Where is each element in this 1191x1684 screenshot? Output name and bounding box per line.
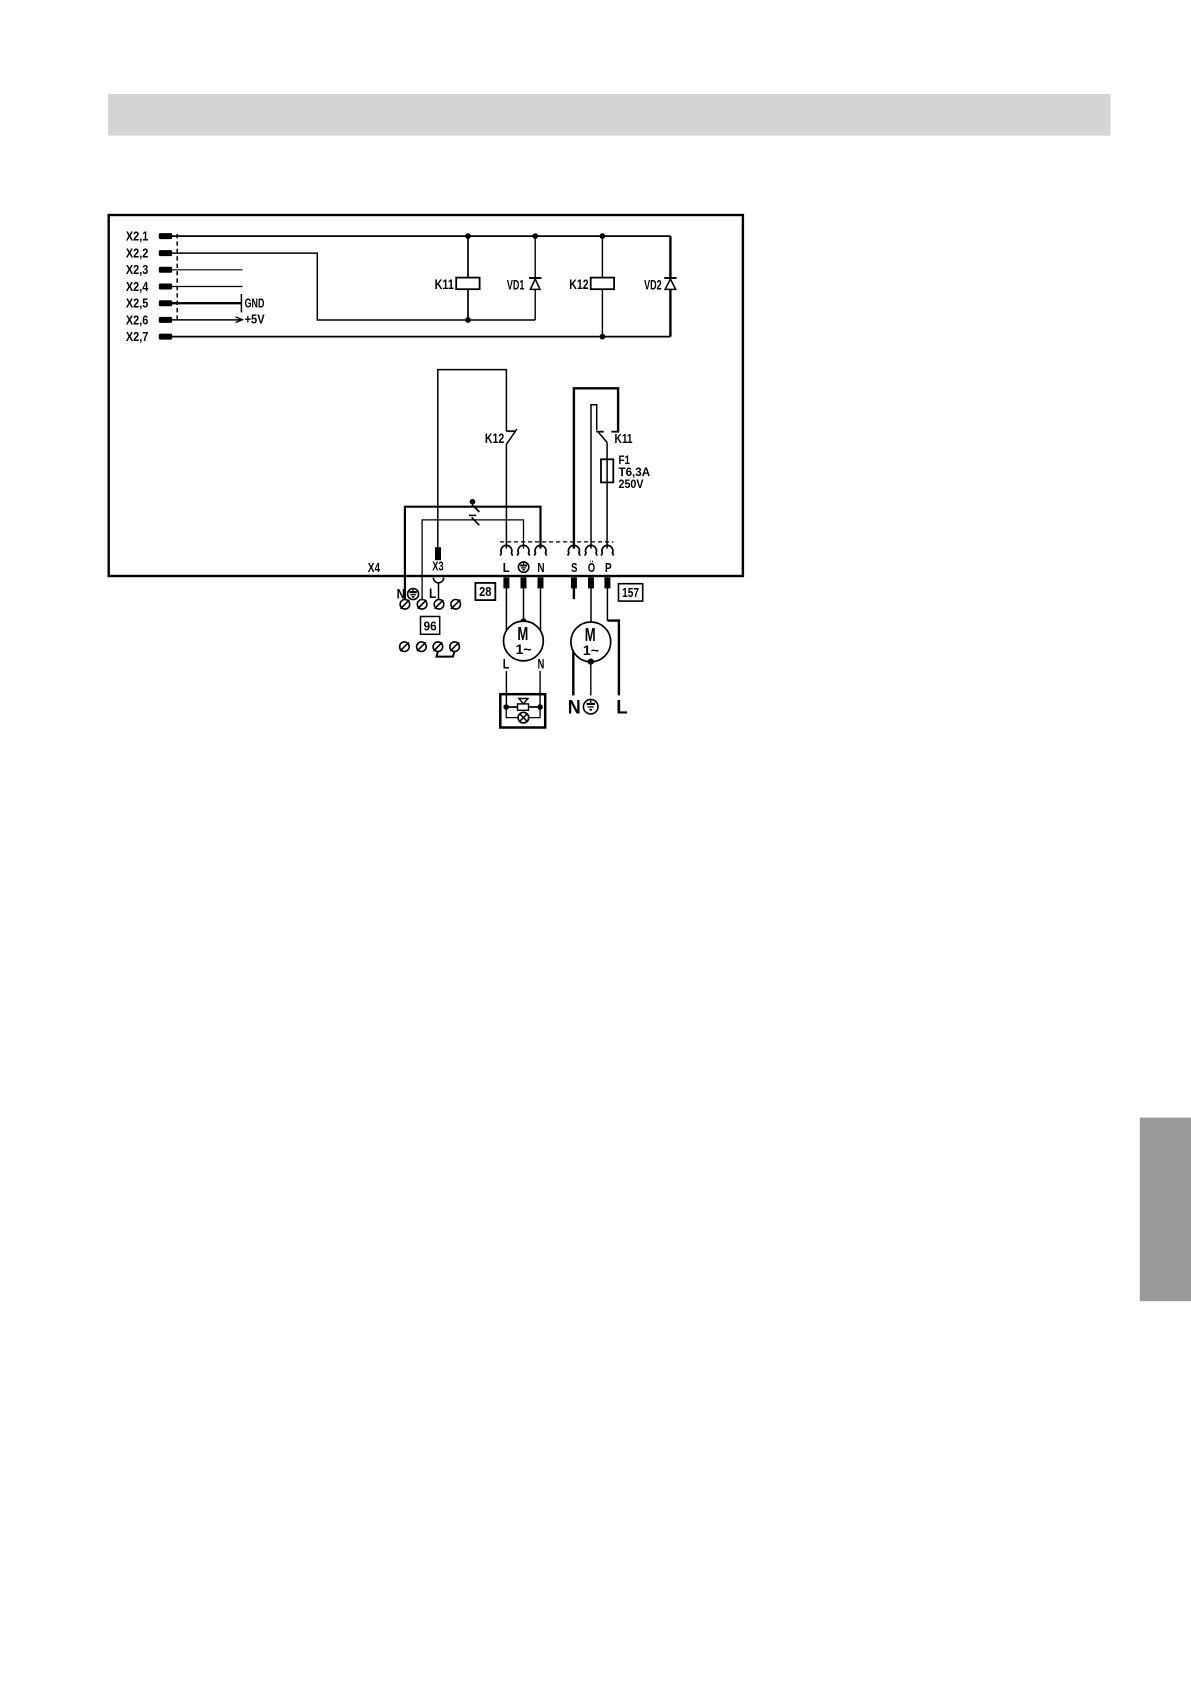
label terminal S [571,560,578,575]
svg-text:K11: K11 [435,277,455,292]
diode VD1 [529,236,541,320]
earth symbol below motor M2 [583,699,598,714]
fuse F1 [601,459,613,482]
terminal pin P [604,577,610,588]
lamp symbol [506,707,540,723]
label K12 contact [485,431,504,446]
wire X2.1 top rail [172,235,670,237]
wire Oe pin to motor M2 [590,588,592,622]
header gray bar [108,94,1111,136]
screw terminal X4 row2 c4 [450,642,460,652]
node dot lamp right [537,704,543,710]
node dot motor M2 bottom [588,659,594,665]
label GND [245,296,265,311]
label VD1 [507,277,525,292]
right margin gray tab [1140,1118,1191,1302]
svg-text:N: N [568,697,581,719]
wire motor M2 to N [572,652,574,696]
dashed connector line above terminals [500,541,614,543]
relay contact K11 [596,432,607,443]
connector X2 pin labels [126,230,148,345]
label K11 contact [615,431,633,446]
svg-text:Ö: Ö [588,560,595,575]
label VD2 [644,277,662,292]
svg-text:X2,3: X2,3 [126,263,148,277]
wire X2.2 to lower rail [172,253,535,320]
svg-text:X2,2: X2,2 [126,247,148,261]
wire X2.5 GND [172,294,241,312]
separation point on earth line [469,515,479,525]
node dot VD1 top [532,233,538,239]
wire mains N line [405,507,541,600]
svg-text:K12: K12 [485,431,504,446]
connector X3 socket arc [433,578,443,583]
wire earth pin to motor M1 top [523,588,525,621]
reference number box 96 [421,617,440,635]
wire L to lamp box [505,671,507,707]
screw terminal X4 row2 c3 [433,642,443,652]
label X4 [368,560,381,575]
terminal pin S [571,577,577,599]
wire P pin to L mains [607,588,619,695]
wire motor M2 to earth [590,662,592,696]
svg-text:+5V: +5V [245,312,265,327]
svg-text:1~: 1~ [516,642,532,657]
terminal socket earth [517,545,529,555]
motor M1 [504,621,544,661]
motor M2 [571,622,611,662]
svg-text:L: L [616,697,627,719]
svg-text:M: M [585,624,596,645]
svg-text:N: N [537,560,544,575]
svg-text:96: 96 [424,620,437,634]
label terminal earth symbol [518,562,528,572]
svg-text:28: 28 [479,584,491,599]
terminal pin L [503,577,509,588]
svg-text:K12: K12 [569,277,588,292]
svg-text:N: N [538,657,545,672]
svg-text:S: S [571,560,578,575]
label terminal P [605,560,612,575]
wire X2.3 stub [172,269,243,271]
label terminal Oe [588,560,595,575]
terminal socket P [601,545,613,555]
label K11 coil [435,277,455,292]
separation point on N line [470,499,480,512]
node dot lamp left [503,704,509,710]
wire X2.6 +5V with arrow [172,317,242,323]
svg-text:L: L [503,657,510,672]
svg-text:P: P [605,560,612,575]
svg-text:157: 157 [622,585,639,600]
svg-text:X2,4: X2,4 [126,280,148,294]
label X3 [432,558,443,573]
svg-text:X2,1: X2,1 [126,230,148,244]
svg-text:L: L [503,560,510,575]
resistor in lamp unit [506,704,540,710]
wire earth line [422,520,523,600]
svg-text:X3: X3 [432,558,443,573]
wire N pin to motor M1 [540,588,542,630]
terminal socket N [534,545,546,555]
screw terminal X4 row1 c3 [434,600,444,610]
relay coil K12 [591,236,614,337]
wire X3 riser to K12 contact [438,370,507,548]
wire terminal S hook [574,388,619,548]
reference number box 28 [475,583,495,600]
label N mains [568,697,581,719]
relay contact K12 [506,429,517,444]
svg-text:X2,5: X2,5 [126,297,148,311]
wire X2.4 stub [172,286,243,288]
diode symbol in lamp unit [519,699,528,704]
wire N to lamp box [539,671,541,707]
svg-text:X2,7: X2,7 [126,330,148,344]
svg-text:K11: K11 [615,431,633,446]
svg-text:X4: X4 [368,560,381,575]
lamp unit box [500,694,545,727]
wire K12 contact to terminal L [505,444,507,549]
label K12 coil [569,277,588,292]
label L mains [616,697,627,719]
screw terminal X4 row2 c1 [400,642,410,652]
terminal socket S [568,545,580,555]
label terminal N [537,560,544,575]
relay coil K11 [456,236,479,320]
svg-text:250V: 250V [619,477,645,491]
label F1 T6,3A 250V [619,453,651,491]
terminal pin N [538,577,544,588]
wire X3 socket to screw L [438,583,440,600]
label L below motor M1 [503,657,510,672]
wire terminal Oe riser [591,405,597,549]
label +5V [245,312,265,327]
label L at X4 [429,585,437,601]
node dot K11 bottom [465,317,471,323]
diode VD2 [664,236,676,337]
svg-text:VD1: VD1 [507,277,525,292]
node dot K12 bottom [600,334,606,340]
terminal pin earth [521,577,527,588]
terminal socket Oe [585,545,597,555]
svg-text:M: M [517,623,528,644]
terminal pin Oe [588,577,594,588]
earth symbol at X4 [408,589,419,600]
wire L pin to motor M1 [505,588,507,630]
svg-text:VD2: VD2 [644,277,662,292]
screw terminal X4 row1 c1 [400,600,410,610]
wire X2.7 bottom rail [172,336,670,338]
jumper between row2 c3 and c4 [437,652,455,657]
label N below motor M1 [538,657,545,672]
control unit outline box [109,215,743,576]
svg-text:L: L [429,585,437,601]
node dot motor M1 top [520,618,526,624]
connector X3 pin [435,547,441,560]
dashed connector boundary line [176,234,178,321]
node dot K11 top [465,233,471,239]
terminal socket L [500,545,512,555]
reference number box 157 [619,584,643,601]
screw terminal X4 row1 c2 [417,600,427,610]
X2 connector pins [159,233,172,340]
svg-text:X2,6: X2,6 [126,313,148,327]
screw terminal X4 row1 c4 [451,600,461,610]
svg-text:GND: GND [245,296,265,311]
node dot K12 top [600,233,606,239]
screw terminal X4 row2 c2 [417,642,427,652]
svg-text:1~: 1~ [583,643,599,658]
label N at X4 [397,586,405,602]
label terminal L [503,560,510,575]
wire contact to fuse to terminal P [606,443,608,549]
